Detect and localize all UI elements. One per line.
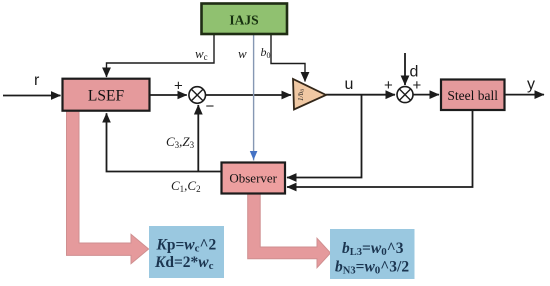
svg-text:LSEF: LSEF	[88, 88, 125, 105]
svg-text:Steel ball: Steel ball	[447, 88, 498, 103]
wire triangle to sum2	[326, 94, 395, 96]
svg-text:u: u	[345, 76, 354, 93]
svg-text:Observer: Observer	[229, 171, 277, 186]
gain box 1 (blue)	[149, 226, 224, 278]
wire r input	[3, 95, 61, 97]
svg-text:+: +	[413, 77, 422, 94]
block Steel ball	[441, 80, 505, 111]
wire u branch to Observer	[287, 95, 362, 178]
wire Steel ball bottom feedback to Observer	[287, 110, 473, 187]
svg-text:IAJS: IAJS	[229, 13, 258, 28]
block IAJS	[202, 4, 288, 35]
summing junction sum2	[397, 87, 413, 103]
wire w from IAJS to Observer (blue)	[253, 35, 255, 161]
svg-text:y: y	[527, 76, 535, 93]
wire b0 from IAJS to gain triangle	[271, 35, 305, 82]
block Observer	[222, 163, 286, 194]
svg-text:w: w	[238, 46, 247, 61]
svg-text:−: −	[206, 98, 215, 115]
block LSEF	[63, 79, 150, 111]
svg-text:Kd=2*wc: Kd=2*wc	[154, 254, 214, 272]
svg-text:r: r	[34, 72, 40, 89]
wire Steel ball to output y	[505, 94, 544, 96]
fat pink arrow from LSEF to gain box 1	[67, 105, 149, 264]
svg-text:+: +	[384, 77, 393, 94]
gain box 2 (blue)	[330, 229, 415, 279]
fat pink arrow from Observer to gain box 2	[248, 190, 331, 268]
wire sum1 to gain triangle	[206, 94, 291, 96]
svg-text:+: +	[174, 78, 183, 95]
wire LSEF to sum1	[150, 94, 187, 96]
summing junction sum1	[189, 87, 206, 104]
wire feedback branch up to sum1 minus	[197, 105, 199, 172]
op-amp gain triangle 1/b0	[293, 79, 326, 110]
wire feedback Observer to LSEF bottom	[107, 113, 222, 171]
svg-text:Kp=wc^2: Kp=wc^2	[156, 237, 217, 255]
wire d disturbance input	[404, 53, 406, 85]
wire sum2 to Steel ball	[413, 94, 439, 96]
wire wc from IAJS to LSEF	[107, 35, 215, 77]
